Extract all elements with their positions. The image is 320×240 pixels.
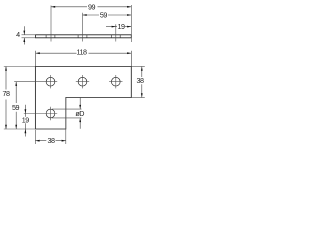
svg-text:38: 38 [136, 76, 144, 85]
svg-text:38: 38 [47, 136, 55, 145]
right extension lines [131, 67, 145, 98]
svg-text:19: 19 [117, 22, 125, 31]
svg-text:99: 99 [88, 2, 96, 11]
hole hidden edge ticks in strip [46, 35, 120, 38]
left extension lines [4, 67, 36, 130]
dimension 99 [51, 6, 131, 8]
dimension 59 top [83, 14, 132, 16]
svg-text:19: 19 [22, 116, 30, 125]
dimension 118 [36, 51, 132, 67]
svg-text:øD: øD [75, 109, 84, 118]
hole 1 centerlines [14, 75, 57, 88]
hole 3 centerlines [109, 75, 122, 88]
front view plate outline [35, 67, 131, 130]
svg-text:78: 78 [2, 89, 10, 98]
dimension 59 left [15, 82, 17, 129]
hole 2 [78, 77, 87, 86]
dimension oD leader [79, 98, 81, 129]
dimension 38 right [141, 67, 143, 98]
bottom extension lines [35, 98, 65, 145]
hole 1 [46, 77, 55, 86]
dimension 19 top [106, 26, 131, 28]
hole 3 [111, 77, 120, 86]
edge view strip outline [36, 35, 132, 38]
dimension 78 [5, 67, 7, 130]
hole centerlines through strip [51, 5, 131, 42]
hole 4 centerlines [24, 107, 57, 120]
svg-text:59: 59 [12, 103, 20, 112]
svg-text:118: 118 [76, 48, 87, 57]
svg-text:4: 4 [16, 30, 20, 39]
hole 2 centerlines [76, 75, 89, 88]
thickness extension lines [22, 35, 36, 38]
hole 4 [46, 109, 55, 118]
svg-text:59: 59 [100, 11, 108, 20]
hole diameter extension lines [52, 109, 82, 118]
dimension 19 left [24, 105, 26, 137]
dimension 38 bottom [35, 140, 65, 142]
dimension 4 (thickness) [23, 26, 25, 44]
